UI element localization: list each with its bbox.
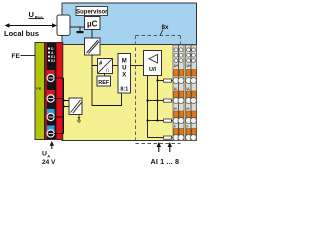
strip top contact circles	[174, 48, 195, 63]
REF reference box	[97, 76, 111, 86]
terminal unit row 1 screw circles	[173, 78, 197, 84]
junction w2b	[156, 99, 158, 101]
U_A supply arrow	[50, 141, 54, 149]
8x dashed group box	[136, 36, 181, 144]
black connector column	[47, 43, 57, 139]
svg-text:8:1: 8:1	[120, 87, 128, 93]
input wire 2	[148, 100, 164, 102]
wire supervisor to uC	[91, 16, 93, 17]
red power strip	[45, 43, 63, 140]
optocoupler isolation box	[85, 38, 101, 55]
wire optocoupler to ADC node	[92, 55, 98, 66]
svg-text:I-: I-	[187, 125, 189, 129]
wire terminal2 to bus	[54, 98, 64, 100]
resistor R1	[164, 79, 172, 82]
svg-text:AI 1 ... 8: AI 1 ... 8	[151, 157, 180, 166]
svg-text:U: U	[122, 66, 126, 72]
junction w1	[156, 79, 158, 81]
svg-text:A: A	[47, 154, 50, 159]
terminal point 4	[47, 130, 54, 137]
terminal unit row 4 labels	[174, 125, 189, 129]
junction w2a	[146, 99, 148, 101]
junction w3a	[146, 119, 148, 121]
terminal unit row 2 labels	[174, 87, 190, 91]
resistor R4	[164, 136, 172, 139]
wire ADC to MUX	[113, 65, 119, 67]
U/I amplifier box	[144, 51, 162, 76]
resistor R3	[164, 119, 172, 122]
AI output arrow 1	[157, 142, 161, 152]
DC-DC converter isolation box	[69, 98, 82, 115]
resistor R2	[164, 99, 172, 102]
svg-text:FE: FE	[36, 86, 41, 91]
svg-text:I-: I-	[174, 125, 176, 129]
FE label	[12, 53, 36, 60]
svg-text:U-: U-	[187, 87, 191, 91]
svg-text:U: U	[29, 10, 34, 19]
terminal 3 blue cap	[47, 109, 55, 116]
svg-text:µC: µC	[87, 20, 98, 29]
terminal unit row 4 screw circles	[173, 135, 197, 141]
wire terminal3 to bus	[54, 116, 64, 118]
wire uC to optocoupler	[91, 30, 93, 39]
wire connector to uC	[70, 26, 85, 28]
MUX 8:1 box	[118, 54, 131, 94]
terminal unit row 3 screw circles	[173, 118, 197, 124]
input wire 3	[148, 120, 164, 122]
stub ADC to REF	[104, 74, 106, 77]
terminal point 2	[47, 95, 54, 102]
wire node down to MUX output	[92, 66, 122, 106]
local bus connector	[57, 15, 70, 36]
local bus double arrow	[5, 23, 58, 28]
svg-text:Supervisor: Supervisor	[76, 10, 108, 16]
wire MUX to amplifier	[131, 65, 144, 67]
terminal point 1	[47, 74, 54, 81]
U_Bus label	[29, 10, 45, 20]
shield arrow below converter	[78, 115, 81, 123]
terminal unit row 3 orange disconnect knives	[174, 111, 196, 118]
terminal unit row 3 labels	[174, 107, 189, 111]
wire bus to DC converter lower	[64, 106, 70, 108]
diagnostic LED block	[47, 46, 56, 66]
terminal point 3	[47, 113, 54, 120]
terminal strip B	[186, 45, 197, 141]
terminal unit row 1 labels	[174, 64, 191, 68]
terminal 1 red cap	[47, 70, 55, 77]
junction w3b	[156, 119, 158, 121]
microcontroller U1	[85, 17, 101, 30]
junction bus lower	[62, 105, 64, 107]
FE green strip	[35, 43, 45, 140]
svg-text:I+: I+	[187, 107, 190, 111]
ADC converter box	[98, 59, 113, 75]
svg-text:∩: ∩	[105, 67, 110, 74]
wire terminal4 to bus	[54, 133, 64, 135]
svg-text:Local bus: Local bus	[4, 29, 39, 38]
module body yellow analog section	[62, 45, 197, 141]
svg-text:X: X	[122, 73, 126, 79]
svg-text:FE: FE	[12, 53, 21, 60]
svg-text:U+: U+	[174, 64, 178, 68]
terminal unit row 2 screw circles	[173, 98, 197, 104]
junction bus upper	[62, 99, 64, 101]
terminal unit row 1 orange disconnect knives	[174, 70, 196, 77]
svg-text:U+: U+	[187, 64, 191, 68]
svg-text:U: U	[42, 151, 47, 158]
wire terminal1 to bus	[54, 77, 64, 79]
AI output arrow 2	[168, 142, 172, 152]
supply bus vertical	[63, 78, 65, 134]
svg-text:M: M	[122, 59, 127, 65]
input wire 1	[158, 80, 164, 82]
terminal unit row 2 orange disconnect knives	[174, 91, 196, 98]
svg-text:Bus: Bus	[35, 15, 44, 20]
Supervisor box U3	[76, 7, 108, 16]
input wire 4	[148, 137, 164, 139]
ground symbol	[77, 27, 84, 33]
svg-text:E2: E2	[51, 59, 55, 63]
terminal strip A	[173, 45, 184, 141]
terminal 2 red cap	[47, 90, 55, 97]
amplifier left vertical wire	[147, 76, 149, 138]
amplifier right vertical wire	[157, 76, 159, 121]
terminal 4 blue cap	[47, 126, 55, 133]
svg-text:U/I: U/I	[149, 67, 157, 73]
module body blue bus section	[62, 3, 197, 45]
svg-text:REF: REF	[98, 80, 110, 86]
svg-text:I+: I+	[174, 107, 177, 111]
wire bus to DC converter upper	[64, 100, 70, 102]
svg-text:24 V: 24 V	[42, 159, 56, 166]
svg-text:U-: U-	[174, 87, 178, 91]
8x label	[160, 24, 169, 36]
U_A label	[42, 151, 50, 159]
terminal unit row 4 orange disconnect knives	[174, 129, 196, 136]
